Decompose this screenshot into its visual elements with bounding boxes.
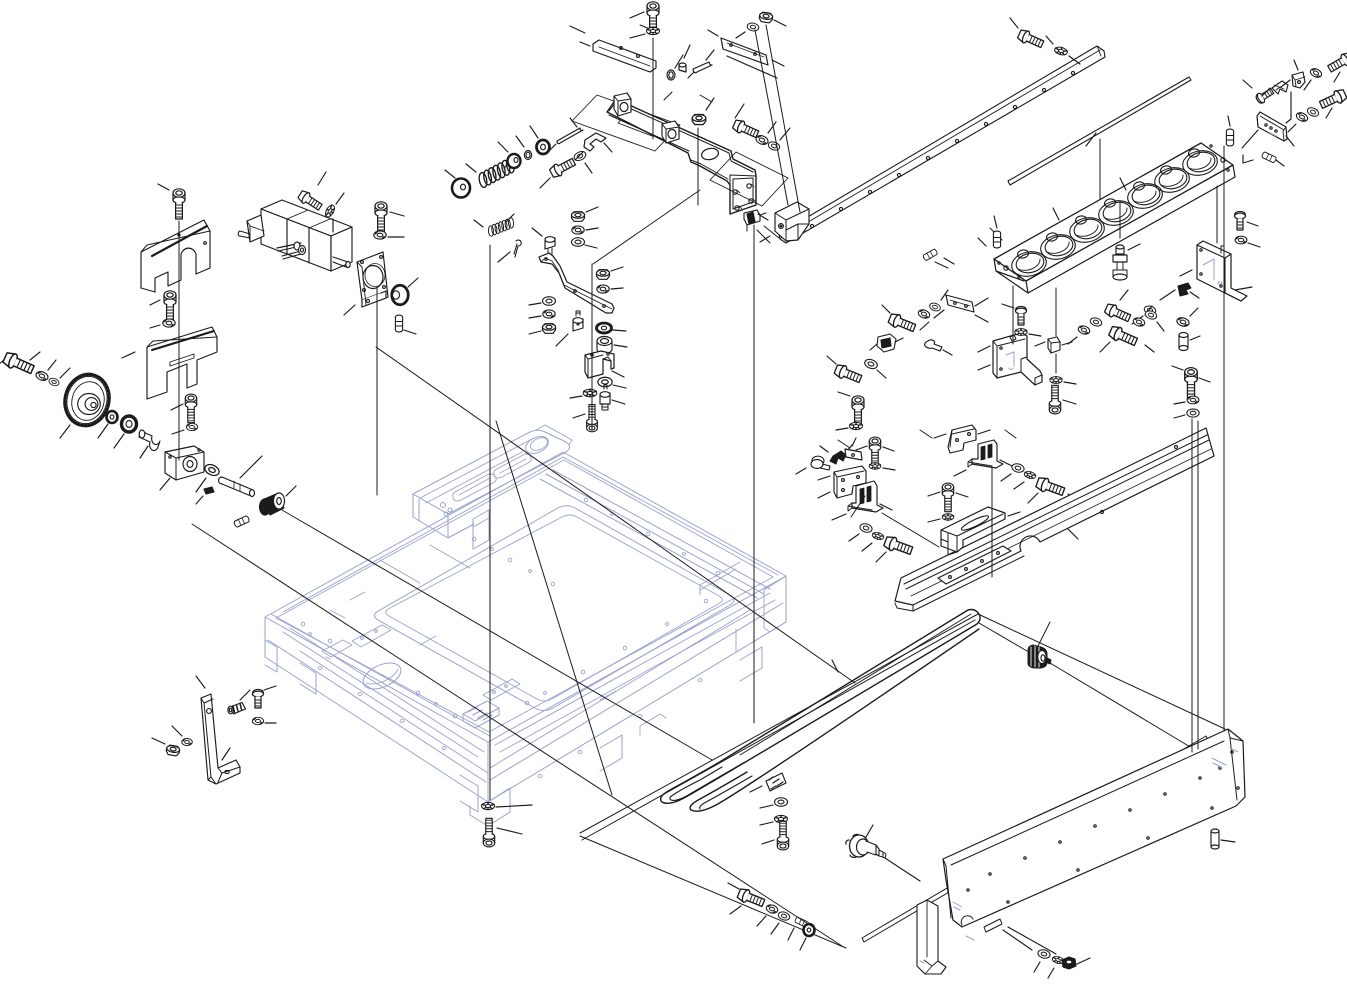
leader diagonal lever-strap	[593, 190, 700, 264]
lock washer W9	[182, 739, 193, 746]
screw S24	[1108, 324, 1139, 348]
hole plate P8 on bar	[938, 546, 1011, 584]
washer W38	[1132, 316, 1146, 327]
L-bracket B3 (bottom left)	[201, 694, 240, 784]
spider nut N7	[583, 389, 597, 397]
washer W42	[1187, 409, 1199, 417]
washer W27	[1306, 106, 1320, 118]
L-bracket B5	[834, 466, 866, 498]
leader bracket cluster	[851, 496, 865, 517]
screw S19	[833, 363, 862, 385]
lamp plate LP1	[994, 143, 1235, 293]
star washer W54	[1052, 955, 1065, 964]
lamp holes	[1009, 249, 1048, 280]
chassis frame (light blue)	[265, 425, 786, 826]
guide bar GB1	[895, 428, 1214, 611]
clinch nut block CB1	[614, 93, 631, 116]
bearing BR2	[537, 140, 550, 154]
pin P3	[233, 515, 249, 527]
knurl screw S6	[228, 703, 246, 715]
plate P6	[946, 295, 974, 312]
leader stubs	[570, 25, 1016, 448]
leader diagonal L3	[496, 421, 612, 795]
screw S28	[869, 437, 880, 466]
plate P3a (upper left bar)	[593, 40, 656, 72]
star washer W43	[869, 463, 881, 469]
lock washer W17	[572, 226, 584, 234]
lock washer W21	[543, 310, 555, 318]
washer W6	[107, 411, 118, 423]
bearing BR3	[597, 323, 612, 333]
star washer W2	[324, 204, 337, 219]
switch SW1	[870, 334, 903, 352]
pin P5	[993, 231, 1000, 248]
screw S22	[1049, 385, 1060, 414]
leader vertical lamp plate left	[1100, 139, 1120, 238]
leader diagonals top nut	[755, 25, 800, 212]
washer W23	[747, 22, 760, 32]
wall feet	[265, 640, 316, 694]
leader diagonal L1	[192, 524, 842, 946]
rod R1	[693, 62, 712, 73]
star washer W45	[872, 531, 885, 540]
leader vertical from mount plate	[376, 288, 378, 495]
hatched pad	[463, 701, 499, 721]
panel left end cap	[917, 900, 946, 974]
slotted bracket SB1	[848, 481, 883, 512]
nut N10 (dark)	[1062, 957, 1076, 969]
washer W29	[1143, 305, 1156, 316]
washer W32	[863, 358, 878, 371]
nut N6	[543, 324, 556, 334]
leader diagonal D1	[376, 347, 855, 683]
belt splice SP3	[766, 773, 786, 791]
ring W15	[524, 151, 531, 160]
nut N8 (top)	[759, 12, 773, 23]
hex bolt S29	[883, 535, 914, 557]
washer W25	[1309, 67, 1323, 79]
lock washer W1b	[186, 423, 197, 430]
pin rod R2	[557, 128, 583, 144]
screw S3 (motor screw)	[297, 189, 324, 212]
lock washer W41	[1187, 396, 1199, 404]
star washer W55 (under chassis)	[482, 802, 495, 809]
screw S7	[253, 690, 264, 709]
washer W4	[35, 370, 49, 382]
washer W18	[572, 238, 585, 247]
leader vertical clamp	[753, 225, 755, 723]
leader vertical nut N3	[697, 128, 699, 205]
screw S10	[549, 156, 577, 179]
bracket B2 (gear cover bracket)	[147, 327, 217, 399]
rail RL1	[779, 46, 1105, 243]
key K1	[204, 487, 214, 494]
L-block LB1	[1197, 241, 1247, 301]
leader vertical top screw	[652, 38, 654, 139]
screw S25	[1185, 368, 1198, 400]
screw S33	[777, 821, 788, 850]
spring SP1 (left cluster)	[474, 155, 519, 190]
motor flange and shaft	[247, 215, 264, 242]
washer W26	[1295, 111, 1309, 123]
screw S1 (top-left bracket screw)	[173, 189, 185, 219]
lever LV1	[539, 253, 614, 313]
leader vertical from screw S1 through brackets	[178, 221, 180, 460]
lock washer W11	[755, 134, 769, 146]
nut N9 (dark)	[804, 924, 815, 936]
nut N1	[166, 745, 180, 757]
main strap bracket BKT1	[607, 99, 756, 214]
pillars under rail	[473, 510, 489, 549]
washer W5	[48, 377, 60, 387]
washer W47	[1011, 462, 1025, 473]
gear G1	[58, 368, 116, 432]
star washer W24	[1054, 46, 1068, 56]
bearing BR1	[122, 416, 137, 432]
pin P2	[395, 315, 402, 332]
spacer C1	[139, 431, 160, 451]
screw S16	[1318, 88, 1347, 111]
slotted block BL5	[941, 507, 1005, 555]
washer W14	[508, 154, 521, 168]
clip CL3	[1272, 81, 1288, 94]
washer W7	[203, 462, 221, 477]
screw S2 (bracket B2 screw)	[164, 291, 176, 321]
bushing BU2	[1179, 333, 1188, 351]
block BL2	[585, 351, 614, 378]
leader vertical center-left	[489, 245, 491, 800]
lock washer W19	[597, 285, 609, 293]
leader vertical block	[1216, 186, 1218, 243]
screw S12	[587, 405, 598, 432]
nut N2 (small)	[679, 64, 686, 72]
screw S4 (mount plate screw)	[375, 202, 387, 232]
motor M1	[261, 200, 352, 236]
leader vertical mid right	[1192, 419, 1198, 752]
SE corner step	[700, 562, 740, 652]
far right: screw S14	[1255, 87, 1275, 105]
spacer C2	[1211, 829, 1219, 849]
plate P5	[1257, 112, 1287, 141]
washer W30	[917, 308, 931, 319]
clinch nut block CB2	[662, 121, 679, 143]
leader vertical lever	[591, 264, 593, 430]
star washer W10	[647, 27, 660, 34]
nut N5	[597, 270, 610, 280]
flanged screw S27	[811, 456, 830, 470]
screw S17	[1235, 212, 1246, 231]
washer W39	[1144, 310, 1158, 321]
washer W20	[543, 297, 556, 306]
star washer W34	[1015, 329, 1027, 336]
washer W35	[1050, 377, 1062, 384]
washer W12	[767, 140, 781, 151]
screw S5 (gear shaft screw)	[2, 351, 36, 377]
washer W51	[765, 903, 779, 914]
star washer W33	[850, 422, 863, 429]
o-ring OR1	[667, 70, 675, 80]
washer W40	[1176, 316, 1190, 327]
washer W31	[929, 302, 942, 313]
screw S2b (block screw)	[185, 394, 196, 423]
lock washer W8	[252, 717, 263, 724]
bearing block BL1	[165, 446, 204, 480]
nut N3 on strap	[692, 114, 706, 124]
deck small holes	[301, 498, 720, 777]
oval hole in strap	[701, 147, 720, 161]
pin P7	[1226, 129, 1233, 146]
clip CL4	[1178, 283, 1191, 296]
right cluster: L-bracket B6	[948, 425, 976, 453]
lock washer W28	[1235, 236, 1247, 244]
hex bolt S31	[1035, 476, 1066, 498]
motor output shaft	[333, 257, 348, 267]
screw S21	[1016, 307, 1027, 326]
star washer W50	[775, 815, 788, 822]
clamp block CL1	[744, 210, 766, 231]
film sheet outline	[710, 152, 788, 206]
end plate screws holes	[733, 190, 737, 194]
washer W49	[775, 798, 788, 807]
washer W37	[1089, 317, 1103, 328]
leader vertical lamp to panel	[1223, 146, 1225, 731]
knurled roller KN1	[260, 493, 285, 515]
cotter pin CP1	[514, 240, 521, 257]
deck long rails near NE edge	[540, 470, 770, 598]
nut N4 (stack)	[572, 212, 585, 222]
washer W22	[598, 377, 612, 386]
leader verticals L-plate cluster	[1013, 286, 1056, 373]
lock washer W1	[163, 319, 175, 327]
deck inner opening	[374, 506, 734, 711]
star washer W46	[942, 514, 954, 520]
screw S8 (top center)	[647, 2, 659, 32]
screw S30	[942, 483, 953, 512]
rod R3 (thin shaft)	[1008, 77, 1191, 185]
bracket B1 (motor cover bracket)	[141, 220, 210, 292]
standoff ST1	[545, 237, 555, 255]
hex standoff HS1	[1113, 245, 1127, 280]
shoulder screw S11	[600, 385, 610, 410]
tension knob KN2	[1028, 645, 1051, 668]
washer W36	[1077, 324, 1091, 335]
slotted bracket SB2	[968, 440, 1003, 468]
block BL4	[1048, 337, 1060, 353]
wing clip CL5	[830, 451, 846, 464]
clip CL2	[584, 133, 606, 151]
plate P7	[845, 449, 862, 460]
shaft SH1	[219, 477, 254, 496]
screw S9 (right of strap)	[732, 118, 760, 140]
screw S15	[1326, 51, 1347, 75]
rail end block BL3	[775, 202, 809, 241]
bracket B4	[1292, 72, 1305, 88]
pinion G2	[391, 285, 409, 306]
lock washer W3	[374, 231, 386, 239]
shoulder screw ST2	[573, 311, 583, 331]
L-plate LP2	[993, 333, 1042, 385]
washer W44	[859, 522, 873, 533]
raised NW rail block	[413, 430, 570, 514]
pin P8	[1261, 152, 1277, 164]
washer W16	[573, 150, 588, 163]
thin strip ST3	[862, 736, 1208, 942]
bottom left cluster: screw S34	[736, 887, 765, 909]
spring SP2	[485, 216, 517, 238]
pads on deck	[322, 640, 352, 659]
pin P6	[923, 249, 938, 261]
backing plate behind strap	[572, 95, 680, 151]
bottom plane outline	[580, 614, 1225, 948]
plate P4 (upper right bar)	[721, 38, 768, 65]
washer W13 (large dark)	[452, 179, 470, 198]
washer W52	[777, 911, 791, 922]
bushing BU1	[597, 337, 612, 354]
screw S18	[887, 312, 916, 334]
screw S13 (rail screw)	[1017, 28, 1045, 50]
screw S20	[852, 396, 864, 426]
motor mount plate P1	[357, 252, 388, 300]
screw S23	[1104, 302, 1132, 324]
deck outer ring	[265, 452, 786, 742]
motor terminal pins	[277, 243, 301, 259]
pin P10	[794, 917, 809, 928]
walls	[265, 617, 488, 802]
pin P9	[925, 340, 942, 351]
star washer W48	[1024, 470, 1037, 479]
bottom right cluster: washer W53	[1037, 948, 1051, 959]
belt BT1	[661, 610, 981, 812]
leader slotted bracket to block	[882, 467, 992, 577]
front panel PNL1	[943, 729, 1245, 940]
screw S35	[483, 818, 494, 847]
leader diagonal L2	[282, 510, 712, 760]
shaft part SH2	[846, 834, 886, 857]
